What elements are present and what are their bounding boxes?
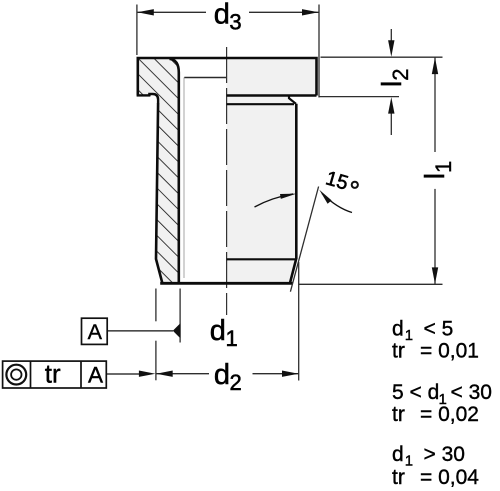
15 deg leader arrow left <box>255 194 294 207</box>
d3 extension line left <box>136 5 138 56</box>
svg-text:1: 1 <box>431 161 456 173</box>
d2 extension line left <box>155 289 157 322</box>
svg-text:5 < d: 5 < d <box>392 381 439 404</box>
d3 arrow right <box>302 9 319 15</box>
body top shoulder line <box>227 103 294 105</box>
svg-text:tr: tr <box>392 466 405 489</box>
l1 dimension line <box>434 57 436 152</box>
datum triangle <box>173 323 181 338</box>
svg-text:tr: tr <box>45 358 61 388</box>
svg-text:d: d <box>210 315 226 347</box>
body left outer edge <box>156 103 162 283</box>
svg-text:1: 1 <box>405 327 413 344</box>
l2 dimension line lower <box>390 112 392 135</box>
d2 arrow left <box>156 371 173 377</box>
flange bottom face line right half <box>227 94 317 96</box>
l2 arrow upper <box>388 40 394 57</box>
l2 extension top <box>321 56 443 58</box>
bottom extension line for l1 <box>299 283 443 285</box>
15 deg leader arrow right <box>322 194 352 213</box>
d3 dimension line <box>137 11 206 13</box>
label l1 <box>419 161 456 180</box>
svg-text:1: 1 <box>405 453 413 470</box>
d2 extension line right <box>298 262 300 381</box>
section hatching left wall <box>138 59 179 282</box>
d3 arrow left <box>137 9 154 15</box>
d1 extension line <box>179 289 181 343</box>
svg-text:d: d <box>214 0 230 30</box>
neck silhouette right <box>289 96 296 104</box>
l2 dimension line upper <box>390 29 392 41</box>
svg-text:3: 3 <box>229 9 241 34</box>
svg-text:> 30: > 30 <box>424 443 465 466</box>
15 deg slant line <box>290 187 318 292</box>
centerline <box>226 47 228 315</box>
datum A box <box>82 318 108 344</box>
body right edge <box>290 104 296 283</box>
bore cavity (white) <box>170 60 227 283</box>
fcf leader <box>106 373 141 375</box>
part body fill (external right half + flange) <box>138 58 317 283</box>
thread major faint line <box>183 78 185 279</box>
svg-text:< 30: < 30 <box>451 381 492 404</box>
flange outline <box>137 58 317 96</box>
d2 dimension line <box>156 373 209 375</box>
svg-text:tr: tr <box>392 339 405 362</box>
chamfer start line <box>227 258 297 260</box>
svg-text:l: l <box>419 173 450 179</box>
l1 arrow bottom <box>432 267 438 284</box>
label l2 <box>376 68 413 87</box>
tolerance note block <box>392 317 492 489</box>
bore wall edge <box>170 59 179 283</box>
svg-text:= 0,02: = 0,02 <box>420 403 479 426</box>
svg-text:d: d <box>392 443 404 466</box>
svg-text:15: 15 <box>323 167 350 194</box>
flange bottom face line left <box>137 94 150 96</box>
feature control frame <box>3 358 107 388</box>
d2 arrow right <box>282 371 299 377</box>
l2 arrow lower <box>388 97 394 114</box>
thread runout line <box>184 77 227 79</box>
l2 extension bottom <box>319 96 400 98</box>
svg-text:l: l <box>376 81 407 87</box>
svg-text:1: 1 <box>226 326 238 351</box>
svg-text:A: A <box>88 320 103 344</box>
svg-text:2: 2 <box>230 370 242 395</box>
bottom edge <box>160 282 292 285</box>
svg-text:< 5: < 5 <box>424 317 454 340</box>
d3 extension line right <box>318 5 320 98</box>
svg-text:2: 2 <box>388 68 413 80</box>
svg-text:= 0,04: = 0,04 <box>420 466 479 489</box>
svg-text:= 0,01: = 0,01 <box>420 339 479 362</box>
svg-text:tr: tr <box>392 403 405 426</box>
undercut groove notch <box>149 94 158 103</box>
svg-text:A: A <box>88 362 103 387</box>
fcf leader arrow <box>139 371 156 377</box>
l1 arrow top <box>432 58 438 75</box>
concentricity symbol <box>6 365 26 385</box>
svg-text:d: d <box>214 359 230 391</box>
svg-text:d: d <box>392 317 404 340</box>
datum leader <box>107 330 173 332</box>
